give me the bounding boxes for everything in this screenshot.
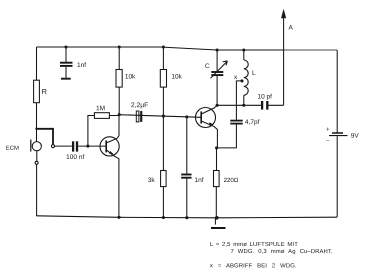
svg-text:1nf: 1nf [194,177,203,184]
svg-text:L: L [252,70,256,77]
svg-text:A: A [289,25,294,32]
svg-text:220Ω: 220Ω [224,177,239,184]
svg-text:C: C [205,63,210,70]
svg-text:+: + [326,126,330,133]
svg-text:3k: 3k [148,177,156,184]
svg-text:100 nf: 100 nf [66,154,84,161]
svg-text:9V: 9V [351,133,360,140]
svg-text:ECM: ECM [6,146,19,152]
svg-text:R: R [42,87,47,96]
svg-text:1M: 1M [96,105,105,112]
svg-text:−: − [326,138,330,145]
svg-text:10k: 10k [125,73,136,80]
svg-text:10k: 10k [171,73,182,80]
svg-text:7 WDG. 0,3 mmø Ag Cu–DRAHT.: 7 WDG. 0,3 mmø Ag Cu–DRAHT. [230,249,333,255]
svg-text:2,2µF: 2,2µF [131,102,149,109]
svg-text:L = 2,5 mmø LUFTSPULE MIT: L = 2,5 mmø LUFTSPULE MIT [210,242,298,248]
svg-text:10 pf: 10 pf [258,94,273,101]
svg-text:1nf: 1nf [77,62,86,69]
svg-text:x: x [234,74,238,81]
svg-text:x = ABGRIFF BEI 2 WDG.: x = ABGRIFF BEI 2 WDG. [210,263,297,269]
svg-text:4,7pf: 4,7pf [245,119,260,126]
